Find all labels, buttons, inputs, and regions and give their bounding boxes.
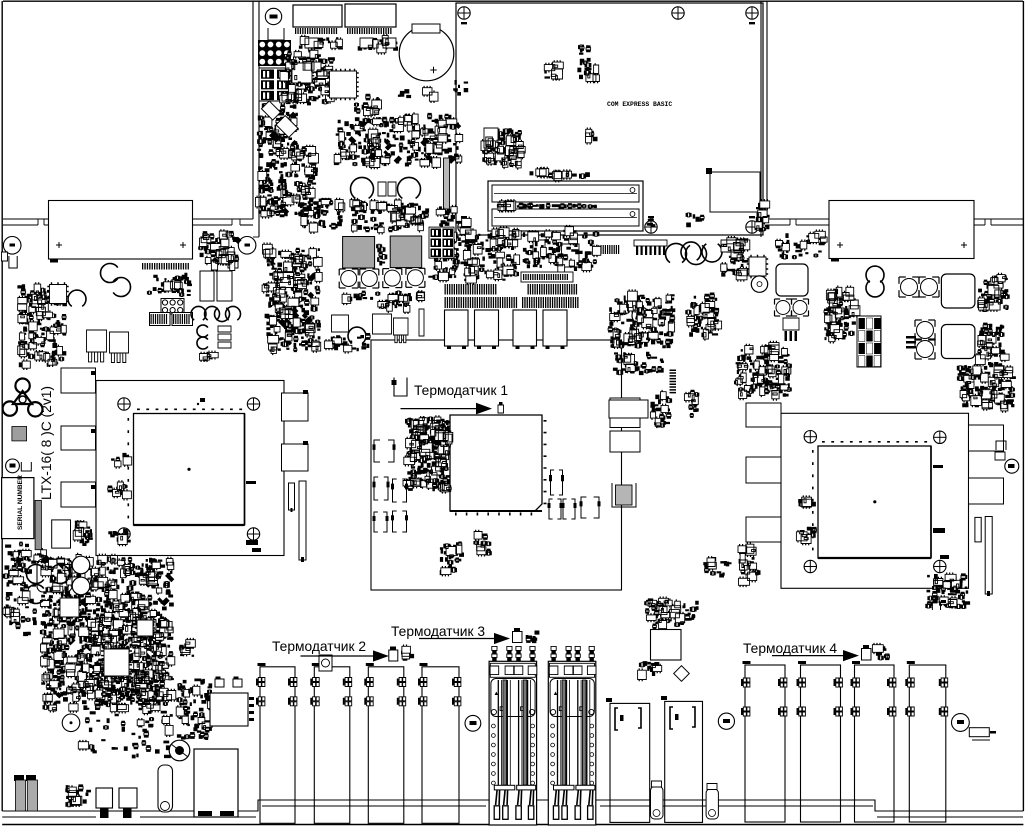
chip U1 pin marks left xyxy=(128,418,130,518)
left BGA section outline xyxy=(96,381,284,556)
gray module B xyxy=(390,236,422,268)
screw hole H4 xyxy=(458,221,470,233)
inductor circles left xyxy=(100,264,117,283)
DIMM connector J_DIMM xyxy=(488,181,643,231)
svg-text:Термодатчик 3: Термодатчик 3 xyxy=(391,624,485,639)
parts under pin header xyxy=(147,273,192,297)
components above DIMM xyxy=(530,167,590,183)
big component cluster bottom-left xyxy=(56,611,66,621)
gray module A xyxy=(343,237,375,269)
arrow to T1 location xyxy=(401,408,479,410)
cap pair below rounded module xyxy=(776,301,790,315)
parts below inductors xyxy=(302,198,429,235)
routed slot left of module section xyxy=(252,1,254,219)
serial number box xyxy=(2,478,34,539)
chip U2 pin marks right xyxy=(544,420,547,504)
svg-text:LTX-16( 8 )C (2v1): LTX-16( 8 )C (2v1) xyxy=(39,386,54,500)
sparse cluster right of COM xyxy=(776,230,826,260)
cap C_a near channel modules xyxy=(215,679,224,687)
svg-text:Термодатчик 4: Термодатчик 4 xyxy=(743,641,837,656)
RAM chip D3 xyxy=(513,310,537,346)
small parts left of chip U1 xyxy=(108,453,131,546)
channel module CH8 xyxy=(909,665,946,822)
cap C_b near channel modules xyxy=(233,679,242,687)
jumper block grid xyxy=(161,299,184,315)
diag square xyxy=(674,666,690,682)
rects right of center section xyxy=(610,398,640,428)
parts right of that xyxy=(5,520,93,562)
screw A4 xyxy=(247,528,259,540)
white rect right of dark block xyxy=(294,57,306,89)
screw A3 xyxy=(118,528,130,540)
sensor T4 xyxy=(862,649,872,661)
screw hole H6 xyxy=(746,221,758,233)
small parts left of chip U3 xyxy=(797,495,817,545)
top-left section bottom edge channel xyxy=(3,218,253,220)
inductor arcs center xyxy=(666,243,687,262)
rects right of right BGA section xyxy=(969,425,1004,451)
mounting circle bottom-left xyxy=(62,714,80,732)
screw A2 xyxy=(247,398,259,410)
memory slot bars right xyxy=(289,483,295,510)
dual IC squares xyxy=(200,271,214,301)
channel module CH4 xyxy=(422,667,459,824)
right BGA section outline xyxy=(781,413,969,588)
screw B3 xyxy=(804,560,816,572)
component with circle near CH2 xyxy=(319,655,332,671)
rects left of left BGA section xyxy=(61,368,96,393)
labels right of chip U3 xyxy=(933,465,949,559)
circle pair right xyxy=(901,279,918,296)
inductor circles bottom-left xyxy=(26,564,43,583)
board outline right edge xyxy=(1022,1,1024,811)
screw hole H2 xyxy=(672,7,684,19)
cluster far right 1 xyxy=(978,273,1010,312)
cluster center-mid xyxy=(632,307,649,324)
bottom connectors left xyxy=(96,788,113,808)
cap below K1 xyxy=(651,787,664,820)
svg-text:COM EXPRESS BASIC: COM EXPRESS BASIC xyxy=(607,101,672,108)
memory slot bars far right xyxy=(975,517,981,542)
cluster mid bottom-left xyxy=(176,679,213,741)
inductor arcs right band xyxy=(681,242,701,260)
svg-text:Термодатчик 1: Термодатчик 1 xyxy=(414,383,508,398)
striped bars xyxy=(150,313,171,326)
cluster below dark block xyxy=(291,140,298,147)
capacitors under gray modules xyxy=(341,271,357,287)
pin header left xyxy=(142,263,189,270)
channel module CH5 xyxy=(745,665,785,822)
cluster above K modules xyxy=(644,597,699,631)
parts between gray modules xyxy=(342,244,423,305)
IC right band xyxy=(747,255,768,278)
inductor arcs left xyxy=(68,290,86,306)
bracket comp right of far right circle xyxy=(969,728,989,737)
IC U_mid square xyxy=(327,69,358,100)
cluster left of channel modules xyxy=(179,638,194,657)
chip U3 pin marks left xyxy=(812,450,814,550)
battery BT1 xyxy=(399,26,454,81)
comb header right xyxy=(634,240,667,246)
vertical component bar xyxy=(444,158,450,209)
rounded module right 2 xyxy=(941,325,975,359)
parts left edge of right section xyxy=(703,542,760,587)
cap circle xyxy=(751,276,767,292)
chip U3 center dot xyxy=(873,500,876,503)
power connector block XP2 xyxy=(548,661,596,825)
thermal sensor symbol T1 xyxy=(394,378,407,397)
top edge connector J1 xyxy=(293,5,342,27)
board outline left edge xyxy=(1,1,3,811)
mounting hole M3 xyxy=(6,459,20,473)
cluster far right 2 xyxy=(976,323,1007,367)
arrow T4 xyxy=(772,655,845,657)
RAM chip bottom marks xyxy=(447,347,565,350)
module rectangle right of DIMM xyxy=(710,172,760,212)
right heatsink outline xyxy=(829,201,974,259)
inductor pair L1 L2 xyxy=(351,177,374,198)
parts below-right inside COM xyxy=(686,199,770,232)
cluster inside COM Express U_area xyxy=(482,128,524,170)
relay module K2 xyxy=(665,701,703,822)
cluster bottom right corner of section xyxy=(925,573,970,609)
cluster mid-left lower xyxy=(266,198,273,205)
mounting circle far right bottom xyxy=(952,714,970,732)
label right of chip xyxy=(246,481,261,552)
COM Express module outline xyxy=(456,3,763,235)
parts below center-mid xyxy=(613,352,676,428)
top edge connector J2 xyxy=(345,4,396,27)
board outline top edge xyxy=(3,0,1023,2)
transistor Q_left2 xyxy=(110,332,129,363)
RAM chip D2 xyxy=(475,310,499,346)
capacitor circles row xyxy=(191,306,206,320)
sensor T3 xyxy=(513,632,523,643)
screw A1 xyxy=(118,398,130,410)
pin header row lower xyxy=(445,297,579,308)
screw hole top-left of module area xyxy=(265,8,281,24)
chip U1 body xyxy=(134,414,245,526)
screw B4 xyxy=(934,560,946,572)
routed slot right of module section xyxy=(760,1,762,237)
gray connector bar xyxy=(35,500,41,549)
mounting hole M1 left xyxy=(3,237,21,255)
cluster left lower right band xyxy=(685,293,719,341)
transistor pair center xyxy=(348,327,366,343)
bracket components left low xyxy=(374,440,380,462)
center BGA section outline xyxy=(371,340,622,590)
small parts below U2 xyxy=(440,530,492,577)
big rect bottom-left xyxy=(194,749,238,817)
parts below top connectors xyxy=(299,34,398,55)
DIMM center component strip xyxy=(497,199,597,212)
channel module CH1 xyxy=(260,667,295,824)
arcs pair right xyxy=(866,266,884,282)
mounting circle center bottom xyxy=(465,715,481,731)
diagonal components xyxy=(261,101,280,120)
RAM chip D1 xyxy=(445,310,469,346)
sensor T2 xyxy=(389,650,398,661)
block grid right of gray B xyxy=(429,227,454,258)
pins left of rounded module 2 xyxy=(906,336,916,349)
pin header row upper xyxy=(445,284,578,295)
chip U1 pin marks top xyxy=(137,409,242,411)
screw labels xyxy=(461,22,755,218)
sparse parts below cluster xyxy=(79,688,187,760)
rounded bracket rect xyxy=(37,559,72,592)
svg-text:Термодатчик 2: Термодатчик 2 xyxy=(272,639,366,654)
tiny label top of chip xyxy=(197,403,199,405)
big square in that cluster xyxy=(651,630,682,661)
RAM chip D4 xyxy=(543,310,567,346)
rects left of right BGA section xyxy=(746,403,781,427)
rects right of left BGA section xyxy=(282,393,309,421)
sparse parts COM interior xyxy=(544,45,655,227)
rect with pins xyxy=(210,693,248,726)
bracket components right of U2 xyxy=(551,470,555,495)
mounting hole M2 xyxy=(238,237,256,255)
gray component right xyxy=(616,485,633,505)
chip U1 center dot xyxy=(187,468,190,471)
channel module CH2 xyxy=(314,667,350,824)
cluster right of arcs xyxy=(721,236,748,282)
screw hole H5 xyxy=(645,221,657,233)
relay module K1 xyxy=(610,703,650,822)
arrow T3 xyxy=(419,638,496,640)
channel module CH7 xyxy=(855,665,895,822)
channel module CH3 xyxy=(368,667,404,824)
IC left power xyxy=(47,282,68,305)
striped connector block xyxy=(259,68,291,101)
mounting circle right-mid bottom xyxy=(718,713,734,729)
cap circles stacked xyxy=(72,556,90,574)
svg-text:SERIAL NUMBER: SERIAL NUMBER xyxy=(17,475,24,530)
rounded module xyxy=(776,264,808,296)
gray square fiducial xyxy=(12,427,27,441)
cluster bottom right band xyxy=(957,362,1016,413)
caps below xyxy=(197,325,208,337)
parts right of battery area xyxy=(371,161,377,167)
gray capacitor pair bottom-left xyxy=(16,802,25,811)
board outline bottom edge xyxy=(2,824,1023,826)
chip U2 pin marks bottom xyxy=(455,513,532,516)
bordered pin header xyxy=(521,272,573,282)
rounded module right 1 xyxy=(941,274,975,308)
cluster ICs top-middle xyxy=(280,49,335,106)
dense cluster mid right xyxy=(824,286,857,344)
cluster below COM left part xyxy=(428,226,519,285)
transistor groups right band xyxy=(734,341,792,401)
dark block xyxy=(523,225,620,274)
trefoil logo xyxy=(15,379,29,393)
transistor Q_left1 xyxy=(87,330,107,362)
chip U2 body xyxy=(450,415,542,511)
electrolytic capacitor xyxy=(169,740,190,761)
parts left of battery xyxy=(398,89,411,98)
mounting hole right mid xyxy=(1005,459,1019,473)
bracket top right xyxy=(932,602,940,610)
left edge cluster xyxy=(3,557,37,636)
screw hole H1 xyxy=(458,7,470,19)
cylindrical capacitor xyxy=(158,765,173,812)
power cluster left A xyxy=(17,282,67,370)
screw hole H3 xyxy=(746,7,758,19)
screw B2 xyxy=(934,431,946,443)
chip U3 body xyxy=(818,446,931,558)
dark connector block with circular pads xyxy=(258,40,291,66)
rect component right of serial xyxy=(52,520,71,548)
chip U3 pin marks top xyxy=(822,441,927,443)
top-right section bottom edge channel xyxy=(767,218,1023,220)
striped grid block xyxy=(857,316,881,367)
cluster mid lower-left of center BGA xyxy=(278,318,288,328)
channel module CH6 xyxy=(801,665,841,822)
bracket below M1 xyxy=(9,256,17,268)
dense resistor bank cluster left of U2 xyxy=(404,415,451,493)
power connector block XP1 xyxy=(489,661,536,825)
arrow T2 xyxy=(301,655,376,657)
core IC in cluster xyxy=(58,596,155,679)
cluster top right-of-heatsink xyxy=(210,257,219,266)
bracket below screw xyxy=(268,28,284,40)
small bracket cap bottom xyxy=(65,784,91,807)
left heatsink outline xyxy=(49,201,193,260)
bracket pins below xyxy=(785,331,798,341)
cap below K2 xyxy=(706,789,718,819)
circle pair right lower xyxy=(917,322,934,339)
rect below center-mid xyxy=(609,400,648,418)
screw B1 xyxy=(804,431,816,443)
